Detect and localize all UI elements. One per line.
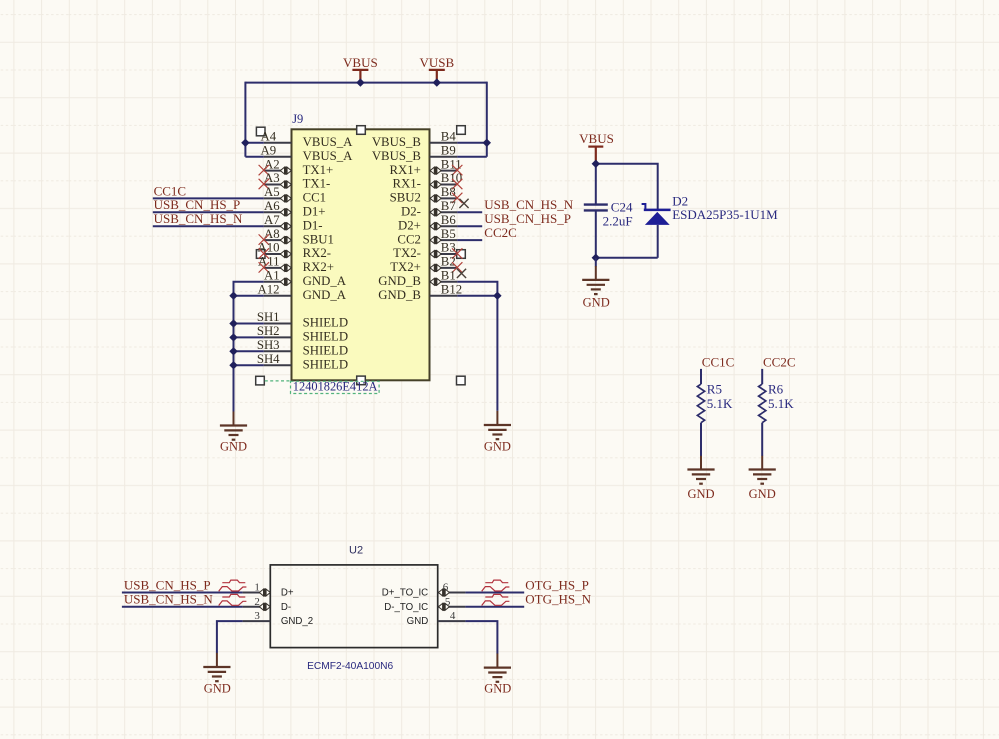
svg-text:SH2: SH2 <box>257 324 280 338</box>
svg-text:GND_B: GND_B <box>378 274 421 288</box>
differential pair marker (right, D-) <box>482 594 510 605</box>
ground GND under C24 <box>582 258 610 310</box>
svg-text:GND: GND <box>484 439 511 453</box>
pin SH3 (SHIELD) <box>257 338 348 358</box>
svg-text:TX2-: TX2- <box>393 246 421 260</box>
selection box around part number <box>265 381 379 394</box>
pin B5 (CC2) <box>397 227 457 247</box>
svg-text:RX1-: RX1- <box>392 177 420 191</box>
pin A8 (SBU1) <box>264 227 334 247</box>
svg-text:GND_2: GND_2 <box>281 616 313 627</box>
svg-text:USB_CN_HS_N: USB_CN_HS_N <box>154 211 243 226</box>
wire net USB_CN_HS_P to pin B6 <box>457 225 482 227</box>
wire pin 5 to net OTG_HS_N <box>465 606 524 608</box>
selection handle <box>256 376 265 385</box>
wire net USB_CN_HS_N to pin B7 <box>457 211 482 213</box>
pin B12 (GND_B) <box>378 282 462 302</box>
selection handle <box>256 127 265 136</box>
svg-text:D-: D- <box>281 602 291 613</box>
pin B11 (RX1+) <box>389 157 461 177</box>
svg-text:B6: B6 <box>441 213 457 227</box>
svg-text:SHIELD: SHIELD <box>303 316 349 330</box>
pin B4 (VBUS_B) <box>372 130 457 150</box>
svg-text:CC2C: CC2C <box>484 225 517 240</box>
svg-text:D-_TO_IC: D-_TO_IC <box>384 602 428 613</box>
selection handle <box>457 126 466 135</box>
wire A4 to left rail <box>245 142 263 144</box>
svg-text:B3: B3 <box>441 241 456 255</box>
selection handle <box>457 250 466 259</box>
svg-text:A4: A4 <box>260 130 276 144</box>
pin B10 (RX1-) <box>392 171 462 191</box>
svg-text:VBUS: VBUS <box>579 131 614 146</box>
svg-text:GND: GND <box>687 487 714 501</box>
wire net USB_CN_HS_P to pin A6 <box>153 211 264 213</box>
svg-text:VBUS_A: VBUS_A <box>303 149 354 163</box>
TVS diode D2 <box>642 204 671 225</box>
svg-text:C24: C24 <box>611 199 633 214</box>
no-ERC marker on pin B10 <box>452 179 462 189</box>
svg-text:J9: J9 <box>292 112 303 126</box>
junction shield bus row 16 <box>229 361 237 369</box>
resistor R6 5.1K <box>759 382 795 423</box>
pin 6 (D+_TO_IC) <box>382 582 466 599</box>
svg-text:D2+: D2+ <box>398 218 421 232</box>
svg-text:USB_CN_HS_N: USB_CN_HS_N <box>484 197 573 212</box>
no-ERC marker on pin B2 <box>452 262 462 272</box>
svg-text:D+: D+ <box>281 588 294 599</box>
pin A11 (RX2+) <box>258 255 334 275</box>
pin A10 (RX2-) <box>258 241 331 261</box>
wire B9 to right rail <box>457 156 487 158</box>
selection handle <box>357 376 366 385</box>
svg-text:D1+: D1+ <box>303 205 326 219</box>
svg-text:GND: GND <box>484 682 511 696</box>
svg-text:1: 1 <box>254 582 260 594</box>
svg-text:6: 6 <box>443 582 449 594</box>
svg-text:B2: B2 <box>441 255 456 269</box>
svg-text:GND: GND <box>204 681 231 695</box>
svg-text:5.1K: 5.1K <box>768 396 794 411</box>
svg-text:GND: GND <box>220 440 247 454</box>
resistor R5 5.1K <box>697 382 733 423</box>
junction A4/left rail <box>241 139 249 147</box>
svg-text:A2: A2 <box>264 157 280 171</box>
wire cap leads <box>595 164 597 258</box>
svg-text:B12: B12 <box>441 282 462 296</box>
svg-text:4: 4 <box>450 610 456 622</box>
pin A5 (CC1) <box>264 185 326 205</box>
svg-text:VUSB: VUSB <box>419 55 454 70</box>
pin 2 (D-) <box>243 596 292 613</box>
svg-text:B9: B9 <box>441 143 456 157</box>
differential pair marker (left, D-) <box>219 594 247 605</box>
pin B3 (TX2-) <box>393 241 457 261</box>
svg-text:VBUS_A: VBUS_A <box>303 135 354 149</box>
pin B7 (D2-) <box>401 199 457 219</box>
selection handle <box>256 250 265 259</box>
junction shield bus row 13 <box>229 319 237 327</box>
pin A9 (VBUS_A) <box>260 143 353 163</box>
svg-text:R6: R6 <box>768 382 784 397</box>
svg-text:USB_CN_HS_P: USB_CN_HS_P <box>154 197 241 212</box>
svg-text:SHIELD: SHIELD <box>303 357 349 371</box>
svg-text:CC2C: CC2C <box>763 354 796 369</box>
svg-text:CC1: CC1 <box>303 191 326 205</box>
svg-text:TX2+: TX2+ <box>390 260 421 274</box>
svg-text:RX2-: RX2- <box>303 246 331 260</box>
svg-text:VBUS_B: VBUS_B <box>372 135 421 149</box>
svg-text:OTG_HS_N: OTG_HS_N <box>525 592 591 607</box>
wire pin 6 to net OTG_HS_P <box>465 592 524 594</box>
pin 3 (GND_2) <box>243 610 314 627</box>
svg-text:VBUS_B: VBUS_B <box>372 149 421 163</box>
svg-text:D+_TO_IC: D+_TO_IC <box>382 588 428 599</box>
pin A6 (D1+) <box>264 199 326 219</box>
ground GND under R6 <box>749 456 776 501</box>
svg-text:A5: A5 <box>264 185 280 199</box>
no-ERC marker on pin A2 <box>259 165 269 175</box>
wire pin 4 to ground <box>465 621 497 654</box>
svg-text:USB_CN_HS_P: USB_CN_HS_P <box>124 577 211 592</box>
svg-text:GND: GND <box>749 487 776 501</box>
selection handle <box>457 376 466 385</box>
wire net USB_CN_HS_P to pin 1 <box>122 592 243 594</box>
power port VBUS (right) <box>579 131 614 164</box>
junction shield bus row 11 <box>229 292 237 300</box>
svg-text:A11: A11 <box>258 255 280 269</box>
svg-text:GND: GND <box>583 296 610 310</box>
svg-text:SHIELD: SHIELD <box>303 330 349 344</box>
wire top rail VBUS/VUSB to J9 A4/B4 <box>245 82 486 157</box>
svg-text:USB_CN_HS_N: USB_CN_HS_N <box>124 592 213 607</box>
pin 1 (D+) <box>243 582 294 599</box>
svg-text:SBU2: SBU2 <box>390 191 421 205</box>
svg-text:5.1K: 5.1K <box>707 396 733 411</box>
svg-text:SH4: SH4 <box>257 352 280 366</box>
svg-text:A9: A9 <box>260 143 276 157</box>
selection handle <box>357 126 366 135</box>
svg-text:A6: A6 <box>264 199 280 213</box>
wire R5 to ground <box>700 423 702 456</box>
no-ERC marker on pin A10 <box>259 248 269 258</box>
ground GND under J9 right <box>484 411 511 454</box>
pin SH4 (SHIELD) <box>257 352 348 372</box>
wire VBUS rail to diode <box>596 164 658 210</box>
wire bottom rail cap/diode <box>596 225 658 258</box>
pin B9 (VBUS_B) <box>372 143 457 163</box>
svg-text:RX1+: RX1+ <box>389 163 420 177</box>
pin B2 (TX2+) <box>390 255 457 275</box>
wire A9 to left rail <box>245 156 263 158</box>
svg-text:3: 3 <box>254 610 260 622</box>
no-ERC marker on pin A11 <box>259 262 269 272</box>
wire R6 to ground <box>761 423 763 456</box>
svg-text:B4: B4 <box>441 130 457 144</box>
svg-text:R5: R5 <box>707 382 722 397</box>
svg-text:CC1C: CC1C <box>702 354 735 369</box>
pin A12 (GND_A) <box>258 282 347 302</box>
no-ERC marker on pin A3 <box>259 179 269 189</box>
svg-text:VBUS: VBUS <box>343 55 378 70</box>
svg-text:RX2+: RX2+ <box>303 260 334 274</box>
pin A2 (TX1+) <box>264 157 333 177</box>
svg-text:D2-: D2- <box>401 205 421 219</box>
wire net CC2C to pin B5 <box>457 239 482 241</box>
junction B12/gnd bus <box>493 292 501 300</box>
wire net CC1C to pin A5 <box>153 197 264 199</box>
no-ERC marker on pin B11 <box>452 165 462 175</box>
ground GND under U2 right <box>484 654 512 696</box>
junction VBUS/top-rail <box>356 78 364 86</box>
pin B8 (SBU2) <box>390 185 458 205</box>
wire net USB_CN_HS_N to pin 2 <box>122 606 243 608</box>
differential pair marker (right, D+) <box>482 580 510 591</box>
dark cross marker near pin B8 <box>459 199 468 208</box>
capacitor C24 <box>584 205 608 211</box>
svg-text:D1-: D1- <box>303 218 323 232</box>
svg-text:A10: A10 <box>258 241 280 255</box>
svg-text:SBU1: SBU1 <box>303 232 334 246</box>
dark cross marker near pin B2 <box>457 269 466 278</box>
svg-text:B8: B8 <box>441 185 456 199</box>
pin SH2 (SHIELD) <box>257 324 348 344</box>
svg-text:GND_B: GND_B <box>378 288 421 302</box>
ground GND under J9 left <box>220 412 247 454</box>
svg-text:GND_A: GND_A <box>303 274 347 288</box>
svg-text:A3: A3 <box>264 171 280 185</box>
svg-text:SHIELD: SHIELD <box>303 344 349 358</box>
svg-text:USB_CN_HS_P: USB_CN_HS_P <box>484 211 571 226</box>
junction cap bottom/gnd <box>592 254 600 262</box>
svg-text:SH3: SH3 <box>257 338 280 352</box>
svg-text:ECMF2-40A100N6: ECMF2-40A100N6 <box>307 661 393 672</box>
junction shield bus row 15 <box>229 347 237 355</box>
svg-text:12401826E412A: 12401826E412A <box>293 380 378 394</box>
svg-text:2.2uF: 2.2uF <box>603 214 633 229</box>
wire B1/B12 to ground <box>457 282 497 411</box>
pin A4 (VBUS_A) <box>260 130 353 150</box>
power port VBUS (top) <box>343 55 378 83</box>
svg-text:TX1-: TX1- <box>303 177 331 191</box>
pin A7 (D1-) <box>264 213 323 233</box>
svg-text:ESDA25P35-1U1M: ESDA25P35-1U1M <box>672 207 778 222</box>
svg-text:OTG_HS_P: OTG_HS_P <box>525 577 589 592</box>
connector J9 body <box>292 129 430 380</box>
filter U2 body <box>270 565 437 648</box>
pin B1 (GND_B) <box>378 269 457 289</box>
svg-text:GND_A: GND_A <box>303 288 347 302</box>
junction B4/right rail <box>483 139 491 147</box>
pin SH1 (SHIELD) <box>257 310 348 330</box>
no-ERC marker on pin B3 <box>452 248 462 258</box>
svg-text:GND: GND <box>407 616 429 627</box>
svg-text:TX1+: TX1+ <box>303 163 334 177</box>
ground GND under R5 <box>687 456 714 501</box>
svg-text:B10: B10 <box>441 171 462 185</box>
svg-text:B5: B5 <box>441 227 456 241</box>
differential pair marker (left, D+) <box>219 580 247 591</box>
pin 5 (D-_TO_IC) <box>384 596 465 613</box>
svg-text:U2: U2 <box>349 544 363 556</box>
svg-text:2: 2 <box>254 596 260 608</box>
svg-text:B1: B1 <box>441 269 456 283</box>
junction shield bus row 14 <box>229 333 237 341</box>
svg-text:CC1C: CC1C <box>154 183 187 198</box>
no-ERC marker on pin A8 <box>259 234 269 244</box>
svg-text:A12: A12 <box>258 282 280 296</box>
ground GND under U2 left <box>203 653 231 696</box>
wire B4 to right rail <box>457 142 487 144</box>
wire pin 3 to ground <box>217 621 243 653</box>
svg-text:A8: A8 <box>264 227 280 241</box>
wire A1/A12/SHIELD bus to ground <box>234 282 264 412</box>
svg-text:CC2: CC2 <box>397 232 420 246</box>
power port VUSB (top) <box>419 55 454 83</box>
pin 4 (GND) <box>407 610 466 627</box>
svg-text:B7: B7 <box>441 199 457 213</box>
svg-text:5: 5 <box>445 596 451 608</box>
wire CC1C to R5 <box>700 369 702 384</box>
junction VBUS/cap top <box>592 160 600 168</box>
svg-text:SH1: SH1 <box>257 310 280 324</box>
pin A1 (GND_A) <box>264 269 347 289</box>
wire net USB_CN_HS_N to pin A7 <box>153 225 264 227</box>
svg-text:A7: A7 <box>264 213 280 227</box>
wire CC2C to R6 <box>761 369 763 384</box>
no-ERC marker on pin B8 <box>452 193 462 203</box>
junction VUSB/top-rail <box>433 78 441 86</box>
svg-text:A1: A1 <box>264 269 280 283</box>
pin A3 (TX1-) <box>264 171 331 191</box>
pin B6 (D2+) <box>398 213 457 233</box>
